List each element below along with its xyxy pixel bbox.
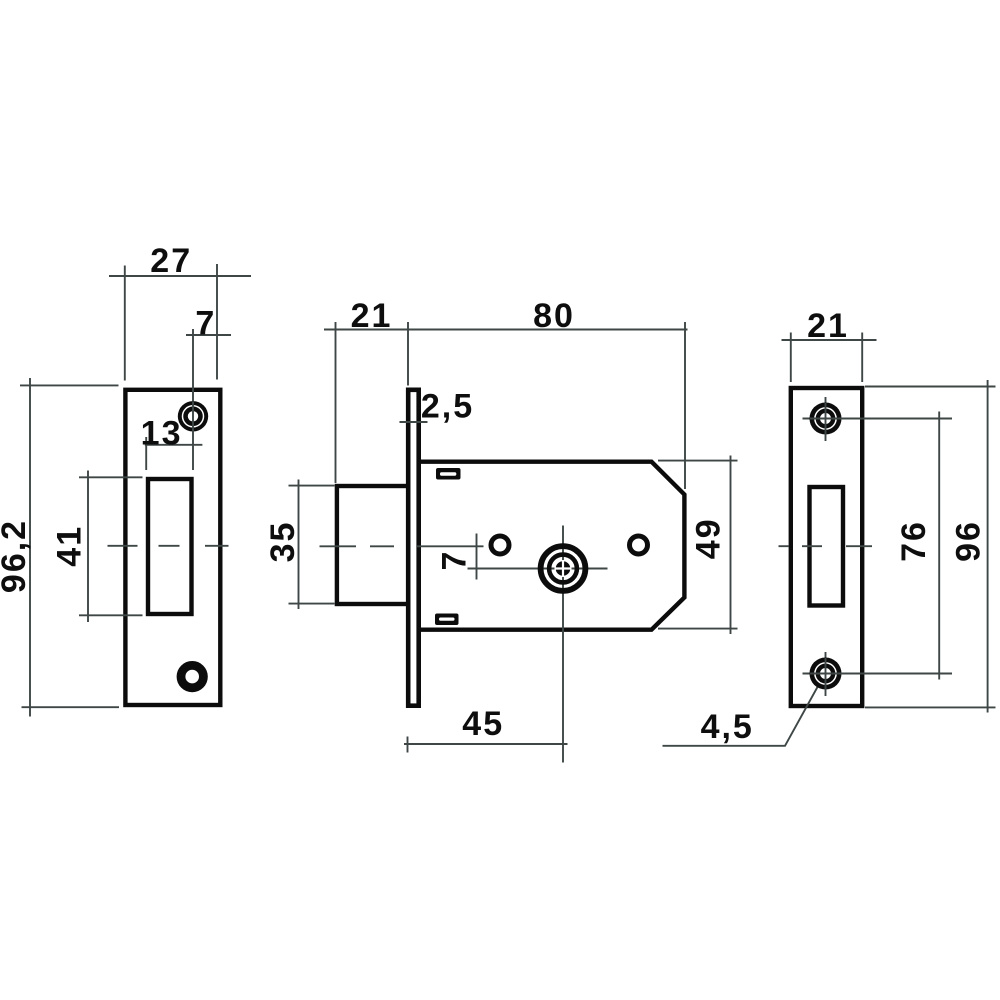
- svg-text:76: 76: [895, 520, 933, 562]
- top slot: [436, 468, 461, 480]
- leader 4,5: [663, 677, 824, 746]
- dim 7 mid line: [476, 534, 478, 580]
- dim 21-80 lines: [324, 329, 688, 331]
- left top screw centerline: [192, 402, 194, 432]
- svg-text:2,5: 2,5: [421, 387, 474, 425]
- svg-text:21: 21: [807, 307, 849, 345]
- right bottom screw: [810, 658, 842, 690]
- centerline right plate: [779, 545, 873, 547]
- right latch hole: [810, 487, 844, 606]
- bottom slot: [435, 614, 459, 626]
- right bottom screw crosshair: [810, 673, 842, 675]
- centerline cylinder horizontal: [320, 545, 395, 547]
- dim 7 left lines: [186, 334, 231, 336]
- svg-text:49: 49: [689, 517, 727, 559]
- left bottom screw: [181, 665, 203, 687]
- left latch hole: [148, 479, 192, 614]
- svg-text:13: 13: [141, 414, 183, 452]
- lock body: [418, 462, 684, 630]
- svg-text:27: 27: [150, 242, 192, 280]
- dim 76 lines: [938, 412, 940, 680]
- svg-text:4,5: 4,5: [701, 708, 754, 746]
- dim 35 lines: [298, 480, 300, 610]
- dim 41 lines: [87, 471, 89, 623]
- svg-text:7: 7: [436, 550, 474, 571]
- key cylinder rings: [541, 546, 586, 591]
- right plate outline: [791, 388, 862, 706]
- right top screw crosshair: [810, 418, 842, 420]
- screw centerline verticals right: [825, 397, 827, 441]
- small circle right: [630, 536, 648, 554]
- centerline left plate: [108, 545, 229, 547]
- left plate outline: [125, 390, 220, 705]
- dim 13 lines: [145, 444, 203, 446]
- dim 49 lines: [730, 456, 732, 635]
- centerline key vertical: [562, 526, 564, 763]
- small circle left: [491, 536, 509, 554]
- faceplate strip: [408, 390, 419, 706]
- svg-text:45: 45: [462, 705, 504, 743]
- svg-text:80: 80: [533, 297, 575, 335]
- cylinder boss: [337, 486, 409, 604]
- left top screw: [178, 401, 208, 431]
- dim 96 lines: [987, 380, 989, 713]
- centerline key horizontal: [468, 568, 608, 570]
- svg-text:96: 96: [950, 520, 988, 562]
- right top screw: [810, 403, 842, 435]
- dim 2,5 tick: [400, 421, 428, 423]
- svg-text:96,2: 96,2: [0, 519, 33, 593]
- svg-text:35: 35: [264, 521, 302, 563]
- dim 21 right lines: [782, 339, 877, 341]
- dim 45 lines: [404, 743, 568, 745]
- dim 27 lines: [109, 275, 251, 277]
- svg-text:7: 7: [195, 305, 216, 343]
- svg-text:41: 41: [50, 525, 88, 567]
- dim 96,2 lines: [29, 378, 31, 717]
- svg-text:21: 21: [351, 297, 393, 335]
